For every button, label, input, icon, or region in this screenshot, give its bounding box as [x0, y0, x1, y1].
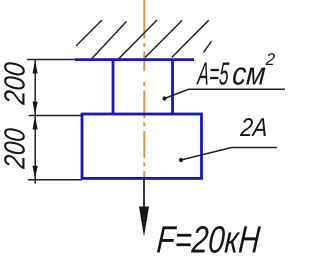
leader dot on lower section [179, 158, 183, 162]
svg-text:200: 200 [0, 61, 31, 106]
top cap line of upper section (blue main line) [75, 58, 194, 61]
svg-text:2: 2 [264, 50, 276, 69]
svg-text:A=5: A=5 [195, 56, 230, 92]
svg-text:F=20кН: F=20кН [155, 220, 261, 262]
dimension extension line bottom [28, 179, 82, 181]
svg-text:200: 200 [0, 127, 31, 170]
hatching line 2 [91, 21, 127, 59]
hatching line 4 [145, 21, 182, 58]
hatching line 3 [118, 20, 157, 60]
dimension extension line middle (at the step) [29, 115, 83, 117]
leader dot on upper section [162, 96, 166, 100]
hatching line 6 (short stub) [204, 41, 212, 53]
leader line for A=5 cm2 [165, 89, 286, 98]
hatching line 1 [76, 20, 102, 46]
dimension arrow down (bottom of lower 200) [33, 166, 38, 180]
svg-text:см: см [231, 56, 267, 92]
dimension line vertical [34, 60, 36, 184]
dimension arrow up (top of upper 200) [33, 60, 38, 74]
dimension arrow down (bottom of upper 200) [33, 102, 38, 116]
leader line for 2A [181, 148, 277, 161]
upper section left edge [112, 59, 115, 114]
force arrow shaft [143, 179, 145, 212]
ground line (thin support line) [27, 59, 77, 61]
upper section right edge [171, 59, 174, 114]
hatching line 5 [172, 20, 209, 57]
centerline (vertical dash-dot axis) [143, 0, 145, 179]
lower section outline (wide rectangle) [82, 114, 202, 178]
svg-text:2A: 2A [239, 114, 269, 142]
force arrowhead [139, 207, 149, 237]
dimension arrow up (top of lower 200) [33, 116, 38, 130]
